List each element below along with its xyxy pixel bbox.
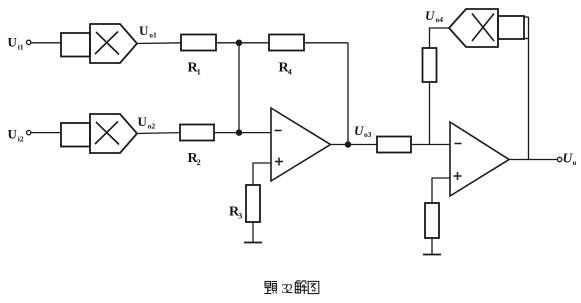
svg-text:o1: o1: [149, 30, 157, 39]
svg-text:U: U: [354, 123, 364, 138]
svg-text:U: U: [139, 23, 149, 38]
svg-text:o3: o3: [364, 130, 372, 139]
svg-text:U: U: [8, 35, 18, 50]
svg-text:U: U: [425, 8, 435, 23]
svg-text:U: U: [138, 114, 148, 129]
svg-text:4: 4: [288, 68, 292, 77]
svg-text:o: o: [573, 158, 577, 167]
svg-text:2: 2: [197, 158, 201, 167]
svg-text:o2: o2: [148, 122, 156, 131]
svg-text:i1: i1: [18, 43, 24, 52]
svg-text:32: 32: [282, 281, 294, 296]
svg-text:3: 3: [238, 212, 242, 221]
svg-text:o4: o4: [436, 15, 444, 24]
svg-text:U: U: [8, 127, 18, 142]
svg-text:1: 1: [197, 68, 201, 77]
svg-text:i2: i2: [18, 135, 24, 144]
